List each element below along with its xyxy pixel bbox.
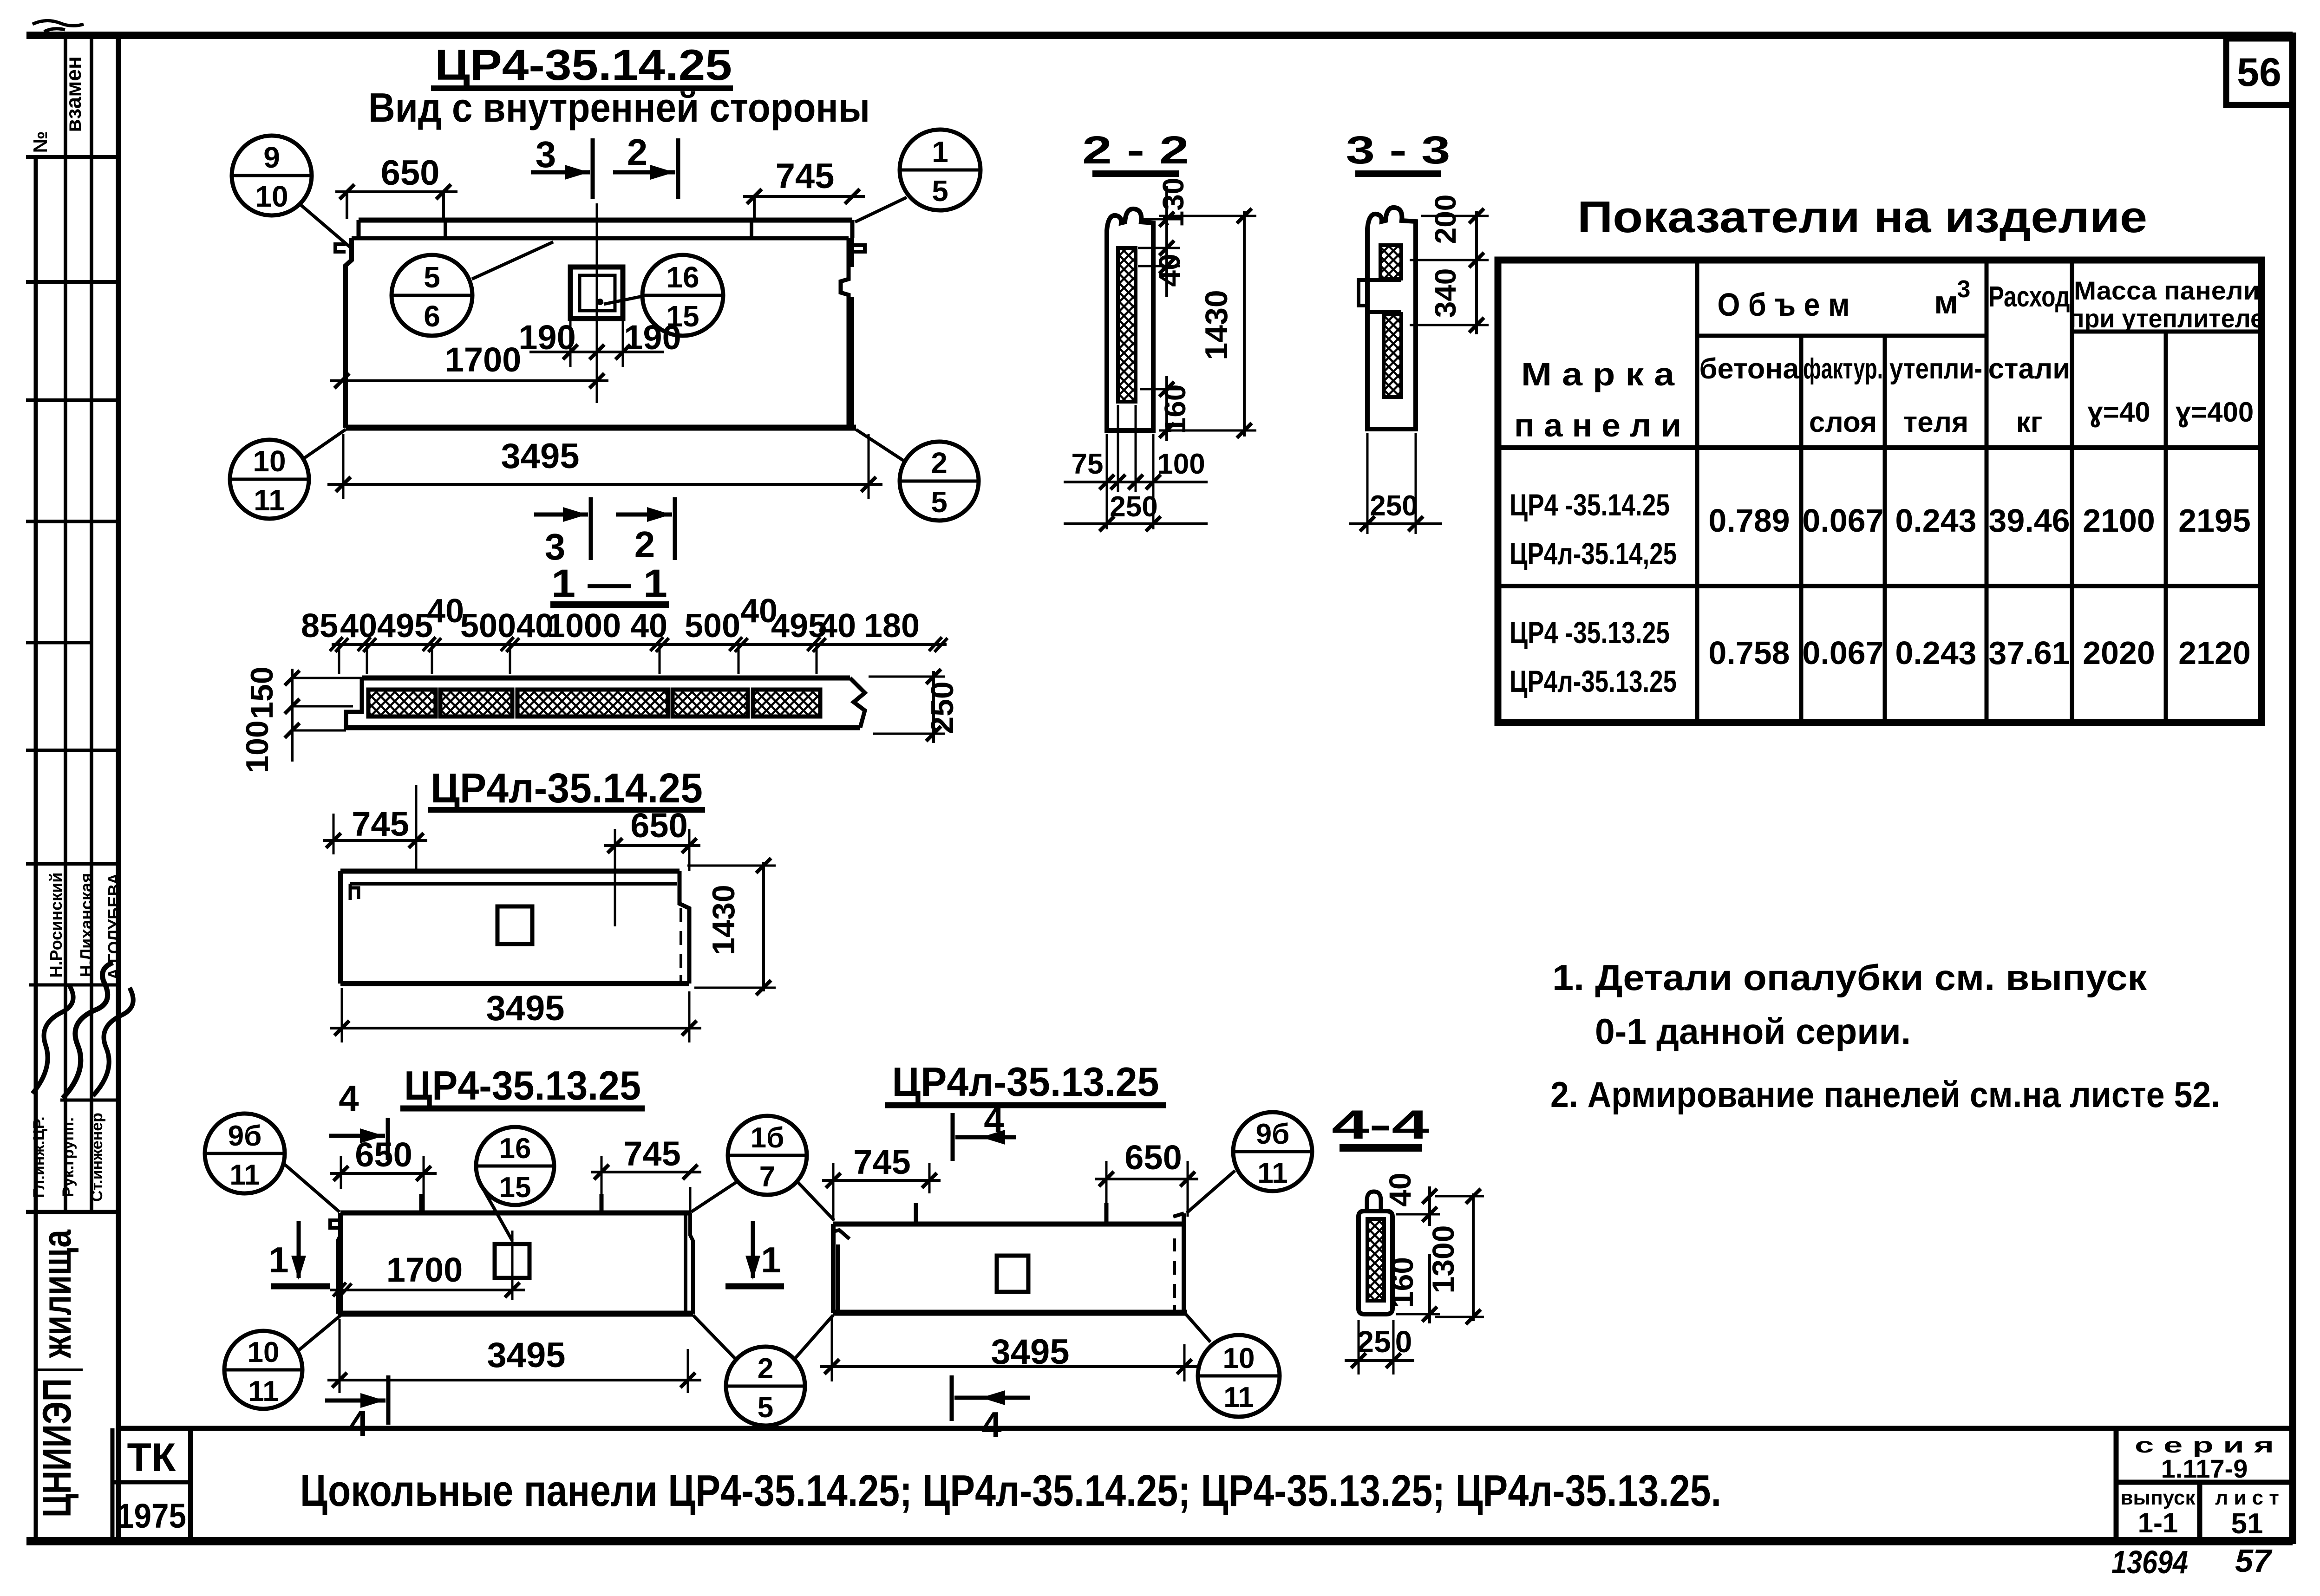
dim 40 of section 2-2 [1138, 241, 1186, 287]
svg-text:1: 1 [268, 1239, 288, 1280]
svg-text:2: 2 [931, 446, 948, 480]
signature column divider 1 [64, 864, 67, 1212]
svg-text:4: 4 [339, 1078, 359, 1119]
margin row divider 6 [26, 749, 118, 752]
svg-text:2. Армирование панелей см.на л: 2. Армирование панелей см.на листе 52. [1550, 1074, 2220, 1115]
dim 340 of section 3-3 [1410, 268, 1489, 332]
svg-text:0.789: 0.789 [1708, 502, 1790, 539]
dim 650 of CR4L-35.13.25 [1095, 1138, 1198, 1221]
header faktur sloya [1803, 353, 1883, 438]
margin row divider 4 [26, 520, 118, 523]
svg-text:40: 40 [1383, 1173, 1417, 1206]
svg-text:5: 5 [932, 174, 948, 208]
right dim 250 of section 1-1 [869, 669, 960, 743]
svg-text:2020: 2020 [2083, 635, 2155, 671]
label No [29, 131, 51, 153]
sheet number box 56 [2226, 39, 2293, 105]
note 1 line 1 [1552, 957, 2147, 998]
title bar top line [118, 1426, 2293, 1431]
svg-text:25: 25 [1357, 1324, 1391, 1359]
svg-text:1300: 1300 [1426, 1225, 1460, 1294]
signature squiggle 1 [33, 984, 73, 1094]
svg-text:2100: 2100 [2083, 502, 2155, 539]
callout circle 10/11 under left panel [224, 1331, 302, 1409]
svg-text:Расход: Расход [1989, 281, 2070, 313]
section title 4-4 [1332, 1101, 1429, 1148]
svg-text:п а н е л и: п а н е л и [1514, 407, 1681, 443]
panel body CR4L-35.13.25 [833, 1203, 1187, 1313]
svg-text:№: № [29, 131, 51, 153]
callout circle 16/15 of CR4-35.13.25 [476, 1127, 554, 1205]
signature squiggle 2 [63, 963, 113, 1098]
svg-text:745: 745 [853, 1143, 910, 1181]
dim 40 of section 4-4 [1383, 1173, 1440, 1226]
svg-text:57: 57 [2235, 1543, 2273, 1579]
insulation strip 3 [517, 690, 668, 717]
svg-text:160: 160 [1385, 1257, 1419, 1308]
svg-text:11: 11 [248, 1375, 279, 1407]
table title [1577, 192, 2147, 242]
svg-text:85: 85 [301, 607, 338, 645]
title underline [431, 85, 733, 91]
svg-text:фактур.: фактур. [1803, 353, 1883, 385]
svg-text:ЦР4л-35.14,25: ЦР4л-35.14,25 [1510, 536, 1677, 571]
svg-text:Масса панели: Масса панели [2074, 276, 2260, 305]
dim 650 of CR4-35.13.25 [330, 1135, 437, 1213]
svg-text:2195: 2195 [2178, 502, 2251, 539]
callout circle 10/11 bottom left [230, 440, 309, 519]
table column line 1 [1695, 260, 1699, 723]
bottom dims 75/100 of section 2-2 [1064, 405, 1208, 529]
insulation strip 1 [368, 690, 436, 717]
header Marka paneli [1514, 356, 1681, 443]
svg-text:500: 500 [460, 607, 516, 645]
dim 745 top right [743, 156, 865, 219]
section 3-3 body [1359, 208, 1416, 429]
table outer border [1498, 260, 2261, 723]
svg-text:5: 5 [931, 485, 948, 519]
dim 3495 of CR4L-35.14.25 [330, 988, 701, 1042]
section mark 4 top right panel [953, 1099, 1016, 1161]
svg-text:0.243: 0.243 [1895, 502, 1976, 539]
section 4-4 body [1359, 1192, 1392, 1314]
dim 190 left [518, 318, 575, 357]
svg-text:Показатели на изделие: Показатели на изделие [1577, 192, 2147, 242]
svg-text:745: 745 [352, 805, 409, 843]
1975 text [117, 1497, 186, 1535]
svg-text:340: 340 [1429, 268, 1462, 318]
dim 3495 of CR4L-35.13.25 [820, 1318, 1201, 1381]
leader 5/6 [472, 242, 553, 279]
seriya number [2161, 1454, 2248, 1483]
svg-text:бетона: бетона [1699, 353, 1800, 385]
callout circle 9/10 [232, 136, 312, 215]
svg-text:0.758: 0.758 [1708, 635, 1790, 671]
series block divider horizontal [2116, 1480, 2293, 1485]
svg-text:0: 0 [1395, 1324, 1412, 1359]
section 2-2 body [1107, 209, 1153, 430]
svg-text:180: 180 [864, 607, 920, 645]
header gamma 40 [2087, 397, 2150, 428]
svg-text:250: 250 [1110, 491, 1157, 523]
TK text [127, 1435, 176, 1480]
svg-text:650: 650 [1124, 1138, 1182, 1177]
title CR4-35.14.25 [435, 40, 732, 89]
series block divider vertical [2197, 1482, 2202, 1541]
signature block divider names/signatures [29, 984, 118, 987]
section mark 4 bottom left [325, 1375, 388, 1444]
svg-text:40: 40 [427, 593, 464, 630]
name N.Rosinskiy [46, 873, 65, 978]
callout circle 5/6 [392, 255, 472, 336]
signature block top line [26, 862, 118, 866]
svg-text:ЦР4 -35.13.25: ЦР4 -35.13.25 [1510, 615, 1670, 650]
svg-text:Рук.групп.: Рук.групп. [59, 1117, 77, 1197]
section 3-3 lower insulation [1384, 314, 1401, 397]
svg-text:250: 250 [1370, 490, 1418, 522]
TK box left line [111, 1428, 115, 1541]
insulation strip 5 [753, 690, 820, 717]
frame bottom border [26, 1537, 2293, 1545]
dim 1430 right [687, 858, 776, 995]
svg-text:4: 4 [348, 1403, 368, 1444]
svg-text:3: 3 [1957, 276, 1971, 303]
svg-text:3495: 3495 [487, 1335, 565, 1375]
svg-text:1. Детали опалубки см. выпу: 1. Детали опалубки см. выпуск [1552, 957, 2147, 998]
callout circle 9b/11 left [205, 1114, 285, 1193]
TK box divider [112, 1480, 190, 1485]
svg-text:13694: 13694 [2111, 1544, 2188, 1580]
table subheader line under Massa [2072, 330, 2261, 334]
row1 values [1708, 502, 2250, 539]
callout circle 16/15 [642, 255, 723, 336]
leader 1b/7 to right panel [797, 1181, 834, 1220]
table column line 3 [1883, 336, 1887, 723]
svg-text:2: 2 [758, 1353, 773, 1385]
square centre dot [597, 299, 603, 305]
margin strip outer left line [34, 157, 38, 1541]
dim row texts of section 1-1 [301, 593, 920, 645]
svg-text:9: 9 [263, 141, 280, 174]
svg-text:2120: 2120 [2178, 635, 2251, 671]
subtitle vid s vnutrenney storony [368, 85, 870, 130]
dim 190 right [624, 318, 681, 357]
vypusk label [2120, 1486, 2196, 1509]
svg-text:11: 11 [1223, 1381, 1254, 1414]
svg-text:3495: 3495 [501, 436, 579, 476]
row2 mark CR4-35.13.25 [1510, 615, 1677, 698]
role Ruk.grupp [59, 1117, 77, 1197]
svg-text:39.46: 39.46 [1988, 502, 2070, 539]
leader to circle 10/11 bottom left [296, 1316, 340, 1352]
callout circle 1/5 [900, 130, 980, 210]
note 1 line 2 [1595, 1011, 1911, 1052]
table header bottom line [1498, 445, 2261, 450]
note 2 [1550, 1074, 2220, 1115]
header gamma 400 [2176, 397, 2254, 428]
svg-text:взамен: взамен [61, 56, 85, 132]
dim 650 top left [335, 153, 457, 219]
frame top border [26, 32, 2293, 39]
section mark 2 bottom [616, 497, 675, 565]
signature block bottom line [26, 1210, 118, 1214]
svg-text:ЦР4-35.14.25: ЦР4-35.14.25 [435, 40, 732, 89]
svg-text:16: 16 [666, 261, 699, 294]
leader 1b/7 to left panel [691, 1181, 738, 1212]
section mark 3 top [531, 134, 593, 199]
handwritten page 57 [2235, 1543, 2273, 1579]
header utepli telya [1889, 353, 1982, 438]
svg-text:4-4: 4-4 [1332, 1101, 1429, 1147]
header Massa paneli pri uteplitele [2069, 276, 2264, 333]
svg-text:745: 745 [623, 1134, 680, 1173]
svg-text:1975: 1975 [117, 1497, 186, 1535]
bottom dim 250 of section 2-2 [1064, 491, 1208, 531]
frame inner left border [116, 35, 121, 1541]
svg-text:9б: 9б [1256, 1118, 1290, 1150]
margin strip column line b [90, 35, 93, 1212]
svg-text:Вид с внутренней стороны: Вид с внутренней стороны [368, 85, 870, 130]
dim line 190+190 [529, 320, 664, 367]
dim 200 of section 3-3 [1410, 195, 1489, 334]
TK box right line [188, 1428, 193, 1541]
frame right border [2289, 33, 2296, 1544]
svg-text:650: 650 [355, 1135, 412, 1174]
lifting hole square of CR4L-35.14.25 [497, 906, 532, 944]
svg-text:1.117-9: 1.117-9 [2161, 1454, 2248, 1483]
svg-text:1430: 1430 [1199, 290, 1234, 360]
dim line of section 1-1 [330, 637, 948, 674]
main title text [300, 1466, 1721, 1516]
svg-text:Н.Росинский: Н.Росинский [46, 873, 65, 978]
institute name CNIIEP zhilishcha vertical [34, 1229, 83, 1518]
dim 3495 of CR4-35.13.25 [327, 1319, 701, 1393]
svg-text:1700: 1700 [386, 1251, 463, 1289]
svg-text:200: 200 [1429, 195, 1462, 244]
svg-text:1000: 1000 [547, 607, 621, 645]
insulation strip 4 [673, 690, 748, 717]
leader 16/15 to square [604, 296, 642, 304]
svg-text:11: 11 [1257, 1157, 1288, 1189]
dim 1700 of CR4-35.13.25 [330, 1251, 525, 1297]
svg-text:1 — 1: 1 — 1 [551, 561, 667, 605]
svg-text:теля: теля [1903, 406, 1968, 438]
section title 2-2 [1082, 128, 1189, 174]
svg-text:250: 250 [925, 681, 960, 734]
panel centre axis line [596, 203, 598, 403]
svg-text:Н.Лиханская: Н.Лиханская [77, 873, 96, 977]
row1 mark CR4-35.14.25 [1510, 488, 1677, 571]
margin strip column line a [64, 35, 67, 1212]
section mark 3 bottom [534, 497, 591, 567]
callout circle 1b/7 between panels [728, 1116, 807, 1195]
leader right panel to circle 10/11 [1186, 1314, 1210, 1342]
svg-text:Цокольные панели ЦР4-35.14.25;: Цокольные панели ЦР4-35.14.25; ЦР4л-35.1… [300, 1466, 1721, 1516]
title CR4L-35.13.25 [885, 1059, 1166, 1105]
table subheader line under Obyem [1697, 334, 1987, 338]
svg-text:51: 51 [2231, 1508, 2263, 1540]
label vzamen [61, 56, 85, 132]
svg-text:100: 100 [1157, 448, 1205, 480]
svg-text:2 - 2: 2 - 2 [1082, 128, 1189, 172]
section mark 1 right [725, 1221, 784, 1286]
svg-text:3495: 3495 [486, 989, 564, 1028]
panel body CR4-35.13.25 [330, 1194, 693, 1314]
margin row divider 1 [26, 155, 118, 159]
svg-text:6: 6 [424, 300, 440, 333]
pencil scribble top left corner [33, 20, 84, 32]
svg-text:10: 10 [248, 1336, 280, 1368]
panel body CR4L-35.14.25 [340, 871, 689, 984]
svg-text:1700: 1700 [445, 340, 522, 379]
svg-text:ЦР4л-35.14.25: ЦР4л-35.14.25 [431, 765, 703, 812]
svg-text:9б: 9б [228, 1120, 262, 1152]
leader to circle 10/11 [302, 430, 346, 460]
leader to circle 2/5 bottom [693, 1315, 736, 1360]
callout circle 2/5 between panels bottom [726, 1347, 805, 1426]
svg-text:1б: 1б [751, 1122, 784, 1154]
dim 1430 of section 2-2 [1159, 208, 1256, 438]
dim 3495 bottom [327, 434, 882, 499]
dim 160 of section 4-4 [1385, 1254, 1440, 1323]
dim 745 left [323, 785, 427, 871]
vypusk number [2138, 1507, 2178, 1538]
dim 130 of section 2-2 [1143, 178, 1190, 297]
leader 9b/11 right to panel [1187, 1171, 1235, 1213]
lifting hole square [570, 267, 623, 319]
row2 values [1708, 635, 2250, 671]
svg-text:ЦР4-35.13.25: ЦР4-35.13.25 [404, 1062, 641, 1108]
svg-text:11: 11 [229, 1159, 260, 1191]
leader right panel to circle 2/5 [795, 1315, 833, 1358]
left dims 150/100 of section 1-1 [240, 666, 362, 773]
svg-text:75: 75 [1072, 448, 1104, 480]
handwritten archive number 13694 [2111, 1544, 2188, 1580]
callout circle 2/5 bottom right [900, 442, 979, 521]
svg-text:2: 2 [634, 524, 655, 565]
svg-text:ЦР4 -35.14.25: ЦР4 -35.14.25 [1510, 488, 1670, 522]
dim 745 of CR4-35.13.25 [591, 1134, 701, 1213]
svg-text:утепли-: утепли- [1889, 353, 1982, 385]
section title 1-1 [550, 561, 669, 605]
svg-text:100: 100 [240, 720, 275, 773]
svg-text:кг: кг [2016, 406, 2043, 438]
svg-text:745: 745 [776, 156, 835, 196]
table column line 2 [1799, 336, 1804, 723]
svg-text:1430: 1430 [706, 885, 741, 955]
svg-text:16: 16 [499, 1133, 531, 1165]
list number [2231, 1508, 2263, 1540]
role Gl.inzh.CR [30, 1116, 48, 1198]
svg-text:л и с т: л и с т [2215, 1486, 2279, 1509]
panel body CR4-35.14.25 [335, 220, 865, 428]
svg-text:1: 1 [761, 1239, 781, 1280]
bottom dim 250 of section 3-3 [1349, 433, 1442, 534]
svg-text:5: 5 [758, 1392, 773, 1424]
svg-text:7: 7 [759, 1161, 775, 1193]
svg-text:ЦНИИЭП│жилища: ЦНИИЭП│жилища [34, 1229, 83, 1518]
name A.Golubeva [105, 873, 124, 980]
header Obyem m3 [1718, 276, 1971, 323]
insulation strip 2 [440, 690, 512, 717]
signature block divider signatures/roles [60, 1099, 118, 1102]
margin row divider 5 [26, 641, 91, 645]
svg-text:1: 1 [932, 135, 948, 169]
section 2-2 insulation strip [1118, 248, 1136, 402]
svg-text:5: 5 [424, 261, 440, 294]
name N.Likhanskaya [77, 873, 96, 977]
list label [2215, 1486, 2279, 1509]
svg-text:0-1 данной серии.: 0-1 данной серии. [1595, 1011, 1911, 1052]
seriya label [2135, 1433, 2274, 1457]
table column line 4 [1985, 260, 1989, 723]
svg-text:ɣ=400: ɣ=400 [2176, 397, 2254, 428]
svg-text:495: 495 [377, 607, 433, 645]
margin row divider 2 [26, 280, 118, 284]
dim 650 right [604, 806, 700, 926]
svg-text:2: 2 [627, 131, 648, 173]
svg-text:М а р к а: М а р к а [1521, 356, 1675, 392]
svg-text:500: 500 [685, 607, 740, 645]
svg-text:1-1: 1-1 [2138, 1507, 2178, 1538]
svg-text:4: 4 [981, 1404, 1001, 1445]
dim 1300 of section 4-4 [1426, 1189, 1484, 1324]
svg-text:0.067: 0.067 [1802, 502, 1883, 539]
svg-text:0.243: 0.243 [1895, 635, 1976, 671]
svg-text:10: 10 [1223, 1342, 1255, 1375]
table row divider [1498, 584, 2261, 588]
svg-text:ТК: ТК [127, 1435, 176, 1480]
callout circle 10/11 under right panel [1198, 1335, 1280, 1417]
callout circle 9b/11 right [1233, 1112, 1312, 1191]
section mark 1 left [268, 1221, 330, 1286]
svg-text:0.067: 0.067 [1802, 635, 1883, 671]
header Raskhod stali kg [1988, 281, 2071, 438]
margin row divider 3 [26, 398, 118, 402]
svg-text:Гл.инж.ЦР.: Гл.инж.ЦР. [30, 1116, 48, 1198]
section 4-4 insulation strip [1367, 1219, 1384, 1301]
svg-text:11: 11 [254, 483, 285, 517]
svg-text:ЦР4л-35.13.25: ЦР4л-35.13.25 [1510, 664, 1677, 698]
section 3-3 upper insulation [1380, 245, 1401, 279]
svg-text:40: 40 [1153, 254, 1186, 287]
svg-text:Ст.инженер: Ст.инженер [88, 1113, 106, 1202]
svg-text:ɣ=40: ɣ=40 [2087, 397, 2150, 428]
signature column divider 2 [90, 864, 93, 1212]
header betona [1699, 353, 1800, 385]
signature squiggle 3 [93, 988, 133, 1096]
table column line 6 [2164, 332, 2168, 723]
svg-text:ЦР4л-35.13.25: ЦР4л-35.13.25 [892, 1059, 1159, 1105]
role St.inzhener [88, 1113, 106, 1202]
svg-text:3: 3 [536, 134, 556, 175]
svg-text:10: 10 [253, 444, 286, 478]
svg-text:стали: стали [1988, 353, 2071, 385]
svg-text:15: 15 [499, 1172, 531, 1204]
svg-text:О б ъ е м: О б ъ е м [1718, 287, 1850, 323]
lifting hole square of CR4L-35.13.25 [997, 1256, 1028, 1292]
section title 3-3 [1346, 128, 1451, 174]
leader to circle 2/5 [856, 430, 906, 462]
section mark 4 bottom right panel [952, 1375, 1030, 1445]
dim 1700 [330, 340, 608, 388]
panel section 1-1 body [344, 678, 865, 728]
series block left line [2114, 1428, 2119, 1541]
dim 745 of CR4L-35.13.25 [822, 1143, 941, 1221]
section mark 4 top left [329, 1078, 388, 1160]
svg-text:10: 10 [255, 180, 288, 213]
svg-text:м: м [1934, 284, 1958, 320]
